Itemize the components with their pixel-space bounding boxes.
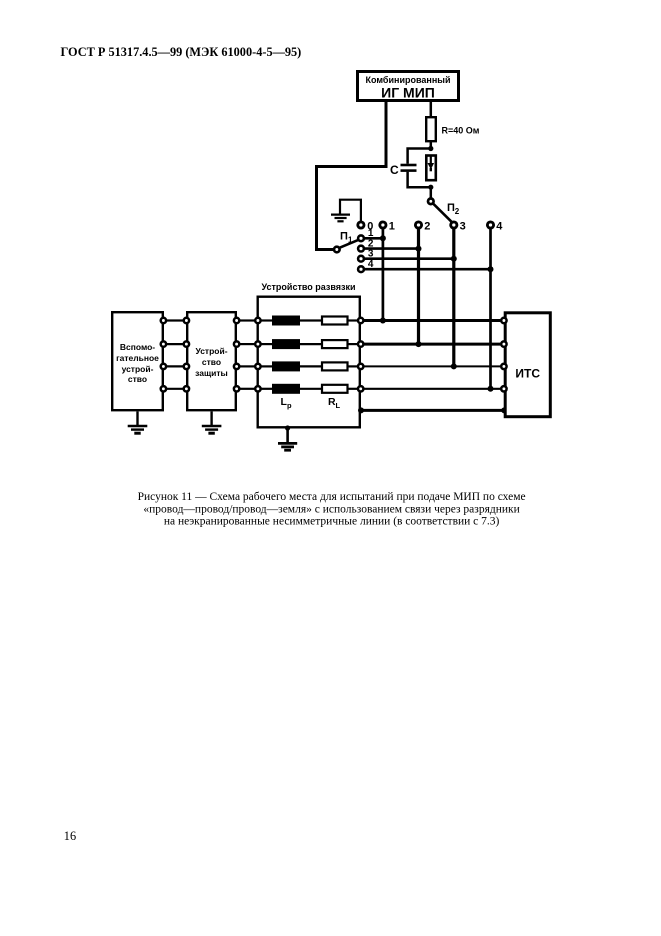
wires auxiliary to protection rows xyxy=(167,321,184,389)
junction node A (top of C / arrester) xyxy=(428,146,433,151)
switch П1 arm to position 1 xyxy=(339,240,358,248)
svg-text:2: 2 xyxy=(455,207,460,216)
svg-text:2: 2 xyxy=(424,221,430,233)
svg-text:П: П xyxy=(340,230,348,242)
svg-text:С: С xyxy=(390,163,399,177)
auxiliary device box Вспомогательное устройство xyxy=(112,312,163,410)
wire generator left output down-left-down to П1 pole xyxy=(317,102,387,250)
resistor RL row 2 xyxy=(322,340,358,348)
svg-text:1: 1 xyxy=(348,236,353,245)
junction position4/line4 xyxy=(488,266,494,272)
svg-text:ство: ство xyxy=(128,374,147,384)
wires protection to decoupling rows xyxy=(240,321,255,389)
line 2 vertical wire xyxy=(417,228,420,344)
svg-text:на неэкранированные несимметри: на неэкранированные несимметричные линии… xyxy=(164,515,500,527)
auxiliary device terminals xyxy=(161,318,166,392)
inductor Lp row 2 xyxy=(261,339,321,349)
ИТС terminals xyxy=(501,318,506,392)
junction line1/row1 xyxy=(380,318,386,324)
arrester F1 разрядник xyxy=(426,156,436,181)
inductor Lp row 1 xyxy=(261,316,321,326)
junction line2/row2 xyxy=(416,341,422,347)
line 3 vertical wire xyxy=(452,228,455,366)
ground under protection device xyxy=(202,412,222,434)
selector position contact 3 xyxy=(358,256,364,262)
svg-text:ИГ МИП: ИГ МИП xyxy=(381,85,435,101)
svg-text:ГОСТ Р 51317.4.5—99 (МЭК 61000: ГОСТ Р 51317.4.5—99 (МЭК 61000-4-5—95) xyxy=(61,45,302,59)
svg-text:16: 16 xyxy=(64,829,76,843)
contact 1 xyxy=(380,222,386,228)
selector position contact 4 xyxy=(358,266,364,272)
resistor RL row 3 xyxy=(322,362,358,370)
resistor RL row 1 xyxy=(322,317,358,325)
line 4 vertical wire xyxy=(489,228,492,389)
junction line4/row4 xyxy=(488,386,494,392)
wire generator right output to resistor R xyxy=(430,102,433,117)
inductor Lp row 4 xyxy=(261,384,321,394)
svg-text:ство: ство xyxy=(202,357,221,367)
wire row 3 decoupling to ИТС xyxy=(364,365,501,367)
svg-text:р: р xyxy=(287,401,292,410)
wire position 2 to line 2 xyxy=(364,247,418,250)
contact 3 xyxy=(451,222,457,228)
protection device box Устройство защиты xyxy=(187,312,236,410)
equipment under test box ИТС xyxy=(505,313,550,417)
wire row 1 decoupling to ИТС xyxy=(364,319,501,322)
svg-text:Устройство развязки: Устройство развязки xyxy=(261,282,355,292)
svg-text:устрой-: устрой- xyxy=(122,364,154,374)
resistor RL row 4 xyxy=(322,385,358,393)
svg-text:L: L xyxy=(336,401,341,410)
ground at contact 0 xyxy=(331,200,361,222)
svg-text:Комбинированный: Комбинированный xyxy=(366,75,451,85)
decoupling device box xyxy=(258,297,360,428)
label RL xyxy=(328,396,341,410)
label П1 xyxy=(340,230,353,244)
svg-text:ИТС: ИТС xyxy=(515,367,540,381)
wire position 3 to line 3 xyxy=(364,257,454,260)
resistor R=40 Ом xyxy=(426,117,480,141)
switch П2 pole circle xyxy=(428,199,434,205)
svg-text:защиты: защиты xyxy=(195,368,228,378)
selector position contact 2 xyxy=(358,246,364,252)
label П2 xyxy=(447,202,460,216)
inductor Lp row 3 xyxy=(261,361,321,371)
junction node B (bottom of C / arrester) xyxy=(428,185,433,190)
capacitor C plates xyxy=(401,165,417,171)
svg-text:«провод—провод/провод—земля» с: «провод—провод/провод—земля» с использов… xyxy=(143,503,519,515)
wire row 2 decoupling to ИТС xyxy=(364,343,501,346)
wire position 4 to line 4 xyxy=(364,268,490,271)
svg-text:3: 3 xyxy=(460,221,466,233)
switch П1 pole circle xyxy=(334,247,340,253)
contact 0 xyxy=(358,222,364,228)
protection device terminals xyxy=(184,318,240,392)
wire capacitor bottom plate to node B xyxy=(408,172,431,187)
earth tap junction at ИТС xyxy=(501,407,507,413)
svg-text:Устрой-: Устрой- xyxy=(195,346,227,356)
contact 2 xyxy=(415,222,421,228)
svg-text:Вспомо-: Вспомо- xyxy=(120,342,155,352)
junction position1/line1 xyxy=(380,235,386,241)
junction position2/line2 xyxy=(416,246,422,252)
svg-text:R=40 Ом: R=40 Ом xyxy=(442,126,480,136)
earth tap junction on decoupling right edge xyxy=(358,407,364,413)
svg-text:1: 1 xyxy=(389,221,395,233)
line 1 vertical wire xyxy=(382,228,385,320)
switch П2 arm to contact 3 xyxy=(433,204,452,222)
ground under auxiliary device xyxy=(128,412,148,434)
wire row 4 decoupling to ИТС xyxy=(364,388,501,390)
label Lp xyxy=(281,396,293,410)
earth tap wire to ИТС xyxy=(361,409,504,412)
ground under decoupling device xyxy=(278,425,297,450)
generator G1 box Комбинированный ИГ МИП xyxy=(358,72,459,101)
contact 4 xyxy=(487,222,493,228)
selector position contact 1 xyxy=(358,235,364,241)
wire position 1 to line 1 xyxy=(364,237,383,240)
wire node A to capacitor top plate xyxy=(408,149,431,164)
junction position3/line3 xyxy=(451,256,457,262)
wire node B to П2 pole xyxy=(430,187,433,198)
decoupling device right terminals xyxy=(358,318,363,392)
wire R bottom to node xyxy=(430,141,433,148)
junction line3/row3 xyxy=(451,363,457,369)
svg-text:4: 4 xyxy=(496,221,503,233)
svg-text:гательное: гательное xyxy=(116,353,159,363)
svg-text:Рисунок 11 — Схема рабочего ме: Рисунок 11 — Схема рабочего места для ис… xyxy=(138,491,526,503)
decoupling device left terminals xyxy=(255,318,260,392)
